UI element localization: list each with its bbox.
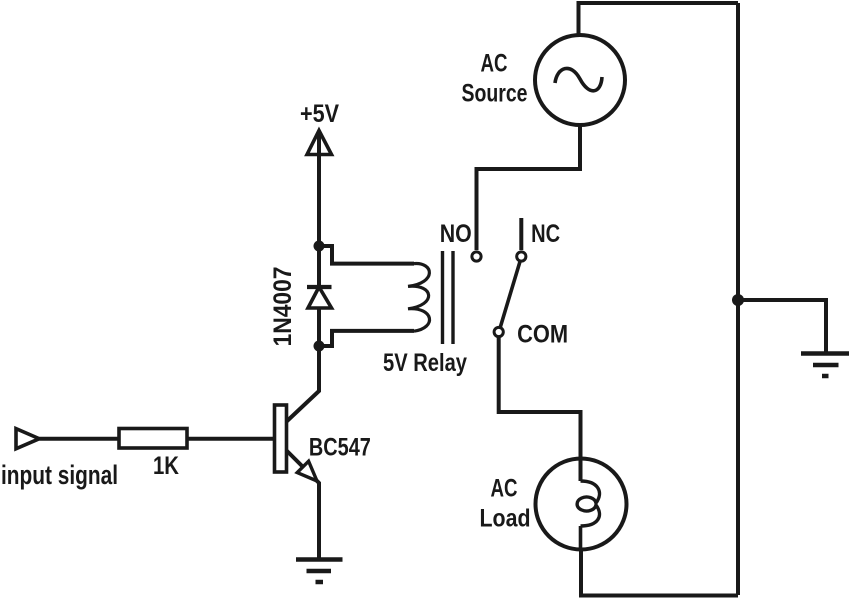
wire: resistor to base [187, 437, 275, 441]
wire: right rail [736, 3, 740, 595]
transistor Q1 BC547 [275, 405, 318, 481]
svg-text:COM: COM [517, 321, 568, 349]
ground (right) [801, 354, 849, 377]
svg-text:1N4007: 1N4007 [269, 267, 297, 347]
ground (left) [296, 560, 343, 583]
power +5V arrow [307, 131, 332, 155]
wire: diode to node2 [317, 308, 321, 346]
svg-text:Load: Load [480, 505, 531, 533]
relay core bars [443, 251, 454, 344]
AC source V1 [535, 35, 625, 125]
wire: collector [286, 346, 319, 422]
svg-text:NC: NC [531, 220, 560, 248]
switch arm COM to NC [500, 262, 520, 328]
resistor R1 [119, 429, 187, 449]
svg-text:1K: 1K [153, 452, 179, 480]
input terminal arrow [16, 429, 39, 449]
label AC Source [462, 50, 528, 108]
AC load lamp [536, 459, 627, 550]
relay contact COM [494, 327, 503, 336]
wire: +5V down through diode to collector [317, 133, 321, 287]
wire: bottom rail [581, 549, 738, 596]
diode D1 1N4007 [307, 287, 332, 308]
wire: relay coil bottom step [319, 331, 414, 346]
relay coil L1 [408, 264, 430, 332]
wire: ground branch right [738, 300, 826, 352]
junction node on right rail [732, 294, 744, 306]
relay contact NO [472, 252, 481, 261]
svg-text:AC: AC [481, 50, 508, 78]
svg-text:input signal: input signal [1, 460, 118, 490]
svg-text:BC547: BC547 [309, 433, 371, 461]
relay contact NC [517, 218, 526, 261]
wire: AC load bottom stub [579, 526, 583, 549]
svg-text:+5V: +5V [300, 100, 339, 128]
svg-text:AC: AC [491, 475, 518, 503]
wire: COM to AC load [499, 337, 581, 482]
label AC Load [480, 475, 531, 533]
junction node2 (coil bottom / collector) [314, 341, 325, 352]
wire: AC source to NO contact [477, 125, 581, 250]
wire: input to resistor [39, 437, 119, 441]
wire: top rail from AC source to right rail [579, 3, 739, 36]
svg-text:NO: NO [440, 220, 472, 248]
junction node1 (diode cathode / coil top) [314, 241, 325, 252]
svg-text:5V Relay: 5V Relay [383, 349, 467, 377]
wire: emitter to ground [286, 450, 319, 559]
svg-text:Source: Source [462, 80, 528, 108]
wire: relay coil top step [319, 246, 414, 264]
